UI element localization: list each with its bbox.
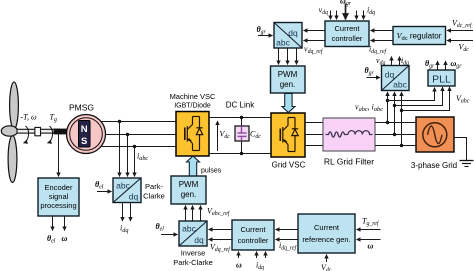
wire tap C down xyxy=(134,147,136,177)
svg-text:pulses: pulses xyxy=(201,168,222,175)
IGBT symbol grid VSC xyxy=(280,118,298,152)
i_dq_ref from current ref gen xyxy=(276,229,299,231)
svg-text:PWM: PWM xyxy=(179,180,199,189)
bottom inputs xyxy=(238,252,240,259)
wire phase C xyxy=(102,146,177,148)
svg-text:PLL: PLL xyxy=(432,74,451,86)
svg-text:dq: dq xyxy=(129,192,139,202)
svg-text:Machine VSC: Machine VSC xyxy=(170,92,216,101)
svg-text:processing: processing xyxy=(40,201,76,210)
svg-text:controller: controller xyxy=(332,34,363,43)
outputs v_dq i_dq xyxy=(391,57,393,66)
svg-text:Current: Current xyxy=(334,24,360,33)
Vdc_ref input xyxy=(447,30,473,32)
shaft xyxy=(17,129,60,133)
T_g_ref input xyxy=(357,229,381,231)
Vdc regulator box xyxy=(393,27,446,45)
Grid VSC box xyxy=(271,113,305,157)
node tap B xyxy=(126,133,129,136)
Current controller bottom xyxy=(232,220,274,250)
taps v_abc i_abc after filter xyxy=(386,121,389,124)
shaft encoder block xyxy=(54,129,68,135)
encoder output theta_el xyxy=(52,216,54,231)
PMSG magnet xyxy=(79,121,91,148)
svg-text:Grid VSC: Grid VSC xyxy=(272,161,306,170)
Machine VSC box xyxy=(176,112,209,157)
svg-text:-T, ω: -T, ω xyxy=(21,113,38,122)
svg-text:dq: dq xyxy=(288,28,298,38)
ground xyxy=(454,138,467,161)
svg-text:reference gen.: reference gen. xyxy=(302,235,350,244)
svg-text:abc: abc xyxy=(276,38,290,48)
wire phase A PMSG to Machine VSC xyxy=(101,121,176,123)
Vdc measurement arrow xyxy=(217,121,219,151)
svg-text:Clarke: Clarke xyxy=(143,192,165,201)
pulses arrow into Grid VSC xyxy=(282,94,295,113)
wind turbine blade upper xyxy=(10,82,19,129)
rotation arrow right xyxy=(48,126,53,143)
svg-text:gen.: gen. xyxy=(181,190,197,199)
inputs from bottom current controller xyxy=(209,229,233,231)
node cap top xyxy=(240,116,243,119)
node tap A xyxy=(118,120,121,123)
svg-text:controller: controller xyxy=(238,236,269,245)
encoder output omega xyxy=(64,216,66,231)
i_dq_ref from Vdc regulator xyxy=(371,30,394,32)
dq/abc box right-center xyxy=(382,66,410,91)
svg-text:PMSG: PMSG xyxy=(69,103,94,113)
svg-text:DC Link: DC Link xyxy=(226,101,255,110)
svg-text:N: N xyxy=(81,124,88,135)
svg-text:ω: ω xyxy=(368,242,374,251)
Current reference gen box xyxy=(298,214,355,253)
svg-text:Current: Current xyxy=(240,225,266,234)
current controller outputs into dq/abc xyxy=(304,30,326,32)
wire tap A down to Park-Clarke xyxy=(119,122,121,177)
Park-Clarke abc/dq box xyxy=(113,178,141,203)
capacitor leads xyxy=(241,118,243,127)
wire grid phase A VSC to filter xyxy=(305,122,323,124)
svg-text:ω: ω xyxy=(236,261,242,270)
Current controller top xyxy=(325,21,369,47)
svg-text:IGBT/Diode: IGBT/Diode xyxy=(174,103,211,110)
svg-text:Current: Current xyxy=(314,223,340,232)
svg-text:3-phase Grid: 3-phase Grid xyxy=(411,161,457,170)
DC link top wire xyxy=(209,117,271,119)
3-phase grid box xyxy=(416,117,454,152)
omega input xyxy=(357,239,381,241)
RL Grid Filter box xyxy=(323,118,375,151)
Vdc input from below xyxy=(326,255,328,263)
wire phase B xyxy=(106,134,177,136)
wire filter to grid A xyxy=(375,122,416,124)
PLL box xyxy=(428,70,455,86)
svg-text:RL Grid Filter: RL Grid Filter xyxy=(324,157,374,167)
dq/abc box top-left xyxy=(274,23,302,49)
svg-text:Inverse: Inverse xyxy=(181,249,206,258)
PMSG machine xyxy=(67,115,106,154)
svg-text:gen.: gen. xyxy=(280,80,296,89)
PWM gen box top xyxy=(271,66,306,93)
IGBT symbol machine VSC xyxy=(185,117,203,151)
node tap C xyxy=(133,145,136,148)
svg-text:abc: abc xyxy=(116,181,130,191)
shaft coupling xyxy=(35,127,41,135)
rotation arrow left xyxy=(24,126,29,143)
inputs top xyxy=(330,11,332,20)
svg-text:PWM: PWM xyxy=(278,70,298,79)
svg-text:S: S xyxy=(81,136,87,147)
encoder signal processing box xyxy=(38,178,79,216)
Vdc input xyxy=(447,40,473,42)
svg-text:signal: signal xyxy=(49,192,69,201)
wire shaft to encoder xyxy=(58,135,60,177)
svg-text:dq: dq xyxy=(385,70,395,80)
svg-text:abc: abc xyxy=(393,80,407,90)
Inverse Park-Clarke box xyxy=(179,221,207,246)
wind turbine blade lower xyxy=(8,136,17,183)
Park-Clarke outputs i_dq xyxy=(122,203,124,222)
capacitor Cdc box xyxy=(235,126,249,141)
svg-text:Park-: Park- xyxy=(145,182,163,191)
DC link bottom wire xyxy=(209,153,271,155)
inputs from inverse park-clarke xyxy=(185,206,187,222)
svg-text:dq: dq xyxy=(194,235,204,245)
pulses arrow into Machine VSC xyxy=(187,156,200,176)
wind turbine hub xyxy=(1,126,17,136)
dq/abc outputs to PWM xyxy=(278,48,280,65)
svg-text:Encoder: Encoder xyxy=(45,183,73,192)
PLL outputs xyxy=(437,61,439,70)
wire tap B down xyxy=(127,135,129,177)
svg-text:abc: abc xyxy=(182,224,196,234)
node cap bottom xyxy=(240,152,243,155)
branch nodes to PLL xyxy=(386,99,389,102)
PWM gen box bottom xyxy=(171,176,206,204)
svg-text:Park-Clarke: Park-Clarke xyxy=(173,258,213,267)
svg-text:ω: ω xyxy=(62,234,68,243)
